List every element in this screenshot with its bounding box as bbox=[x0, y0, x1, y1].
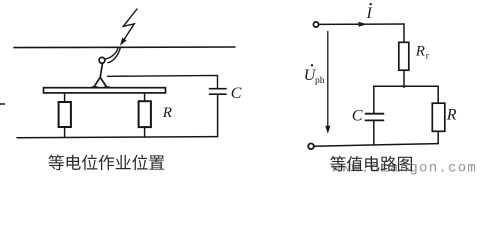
resistor Rr lead top bbox=[403, 24, 405, 42]
capacitor branch lead top bbox=[373, 86, 375, 113]
bottom terminal node bbox=[308, 144, 314, 150]
bonding wire to capacitor bbox=[108, 75, 218, 88]
capacitor C plates (left) bbox=[210, 89, 227, 95]
worker arms bbox=[104, 48, 118, 59]
bottom ground line bbox=[17, 137, 218, 138]
resistor R body (right) bbox=[432, 103, 445, 131]
svg-text:R: R bbox=[415, 44, 425, 60]
capacitor C lead bottom bbox=[217, 94, 219, 136]
bottom wire bbox=[314, 144, 438, 147]
caption: equivalent circuit bbox=[330, 156, 412, 172]
top wire with current arrow bbox=[319, 23, 404, 25]
svg-text:R: R bbox=[162, 105, 172, 121]
stray mark at left edge bbox=[0, 103, 5, 105]
capacitor C plates (right) bbox=[366, 114, 384, 121]
right resistor body bbox=[139, 101, 151, 127]
worker body bbox=[100, 63, 102, 77]
worker legs bbox=[94, 77, 106, 86]
insulated platform bbox=[44, 88, 166, 93]
svg-text:ph: ph bbox=[315, 76, 325, 86]
top terminal node bbox=[313, 22, 318, 27]
overhead power line bbox=[14, 46, 235, 49]
worker feet bbox=[92, 86, 109, 88]
svg-text:C: C bbox=[231, 85, 242, 102]
resistor R branch lead top bbox=[437, 86, 439, 103]
resistor Rr body bbox=[399, 42, 409, 70]
right resistor lead top bbox=[144, 93, 146, 101]
middle junction wire bbox=[374, 85, 439, 87]
voltage arrow U_ph bbox=[327, 32, 329, 127]
svg-text:r: r bbox=[426, 50, 429, 60]
right resistor lead bottom bbox=[144, 127, 146, 137]
resistor R lead bottom bbox=[437, 131, 439, 143]
left resistor lead top bbox=[64, 93, 66, 102]
left resistor body bbox=[59, 102, 71, 127]
worker head bbox=[99, 57, 105, 63]
capacitor branch lead bottom bbox=[373, 120, 375, 144]
svg-text:I: I bbox=[366, 5, 373, 22]
resistor Rr lead bottom bbox=[403, 70, 405, 87]
caption: equipotential working position bbox=[48, 155, 164, 171]
svg-text:C: C bbox=[352, 107, 363, 124]
svg-text:R: R bbox=[446, 106, 457, 123]
left resistor lead bottom bbox=[64, 127, 66, 137]
lightning strike arrow bbox=[120, 9, 137, 46]
